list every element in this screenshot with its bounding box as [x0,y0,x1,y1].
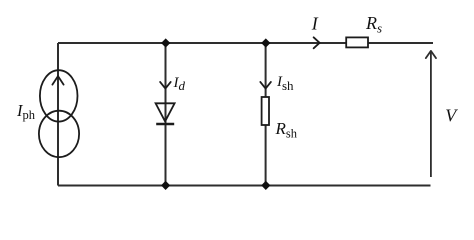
svg-text:Rs: Rs [365,13,382,35]
junction bottom diode node [161,181,170,190]
arrow Ish (down arrowhead on shunt wire) [260,82,271,89]
wire bottom rail [58,185,431,187]
arrow V (vertical arrow at output) [426,51,436,177]
svg-text:Ish: Ish [276,74,294,93]
resistor Rsh (vertical box) [262,97,269,125]
wire top rail [58,42,433,44]
arrow I (right arrowhead on top rail) [314,37,320,48]
svg-text:I: I [311,13,319,33]
svg-text:Id: Id [173,75,186,93]
wire shunt branch [265,43,267,186]
junction bottom shunt node [261,181,270,190]
wire left branch [57,43,59,186]
wire diode branch [165,43,167,186]
junction top diode node [161,38,170,47]
diode D [156,103,175,124]
arrow Id (down arrowhead on diode wire) [160,82,171,89]
svg-text:Rsh: Rsh [275,119,298,140]
current source Iph (two overlapping circles with up arrow) [39,70,79,157]
junction top shunt node [261,38,270,47]
svg-text:V: V [445,106,458,126]
svg-text:Iph: Iph [16,101,36,122]
resistor Rs (horizontal box) [346,37,368,47]
